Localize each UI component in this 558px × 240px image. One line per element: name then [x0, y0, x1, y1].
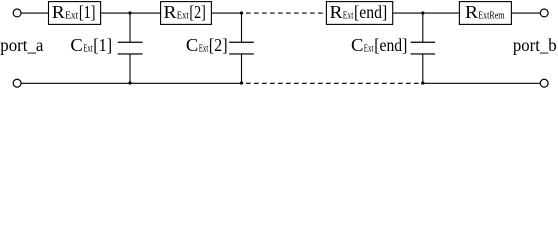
svg-text:[2]: [2]: [209, 35, 228, 55]
svg-text:Ext: Ext: [199, 44, 209, 55]
resistor R_Ext[end]: [326, 2, 392, 25]
svg-text:ExtRem: ExtRem: [478, 11, 504, 22]
svg-text:C: C: [186, 35, 198, 55]
svg-text:[1]: [1]: [93, 35, 112, 55]
svg-text:Ext: Ext: [343, 11, 354, 22]
svg-text:port_b: port_b: [513, 35, 557, 55]
svg-text:R: R: [465, 2, 478, 22]
node junction bottom 3: [421, 81, 424, 84]
svg-text:[end]: [end]: [374, 35, 407, 55]
svg-text:Ext: Ext: [364, 44, 374, 55]
node junction bottom 2: [240, 81, 243, 84]
svg-text:port_a: port_a: [0, 35, 43, 55]
node junction top 3: [421, 11, 424, 14]
label C_Ext[1]: [70, 35, 112, 55]
wire top dashed segment: [246, 12, 326, 14]
svg-text:C: C: [70, 35, 82, 55]
port_b terminal (bottom): [540, 79, 548, 87]
port_a terminal (bottom): [13, 79, 21, 87]
svg-text:Ext: Ext: [177, 11, 189, 22]
resistor R_Ext[2]: [161, 2, 212, 25]
node junction top 1: [128, 11, 131, 14]
wire bottom-right: [421, 82, 540, 84]
label C_Ext[end]: [351, 35, 407, 55]
wire top-left: [21, 12, 48, 14]
wire top between R_Ext[1] and R_Ext[2]: [101, 12, 161, 14]
wire top-right: [511, 12, 540, 14]
capacitor C_Ext[end]: [411, 13, 436, 83]
label C_Ext[2]: [186, 35, 228, 55]
wire bottom-left: [21, 82, 243, 84]
capacitor C_Ext[2]: [229, 13, 254, 83]
resistor R_ExtRem: [459, 2, 511, 25]
node junction top 2: [240, 11, 243, 14]
svg-text:[end]: [end]: [354, 2, 387, 22]
wire top between R_Ext[2] and node: [211, 12, 243, 14]
svg-text:[1]: [1]: [79, 2, 96, 22]
svg-text:C: C: [351, 35, 363, 55]
svg-text:R: R: [52, 2, 65, 22]
svg-text:[2]: [2]: [189, 2, 205, 22]
wire top between R_Ext[end] and R_ExtRem: [393, 12, 460, 14]
port_b terminal (top): [540, 9, 548, 17]
svg-text:R: R: [330, 2, 343, 22]
svg-text:Ext: Ext: [83, 44, 93, 55]
svg-text:R: R: [164, 2, 177, 22]
node junction bottom 1: [128, 81, 131, 84]
capacitor C_Ext[1]: [118, 13, 143, 83]
resistor R_Ext[1]: [49, 2, 101, 25]
wire bottom dashed segment: [246, 82, 420, 84]
port_a terminal (top): [13, 9, 21, 17]
svg-text:Ext: Ext: [65, 11, 78, 22]
